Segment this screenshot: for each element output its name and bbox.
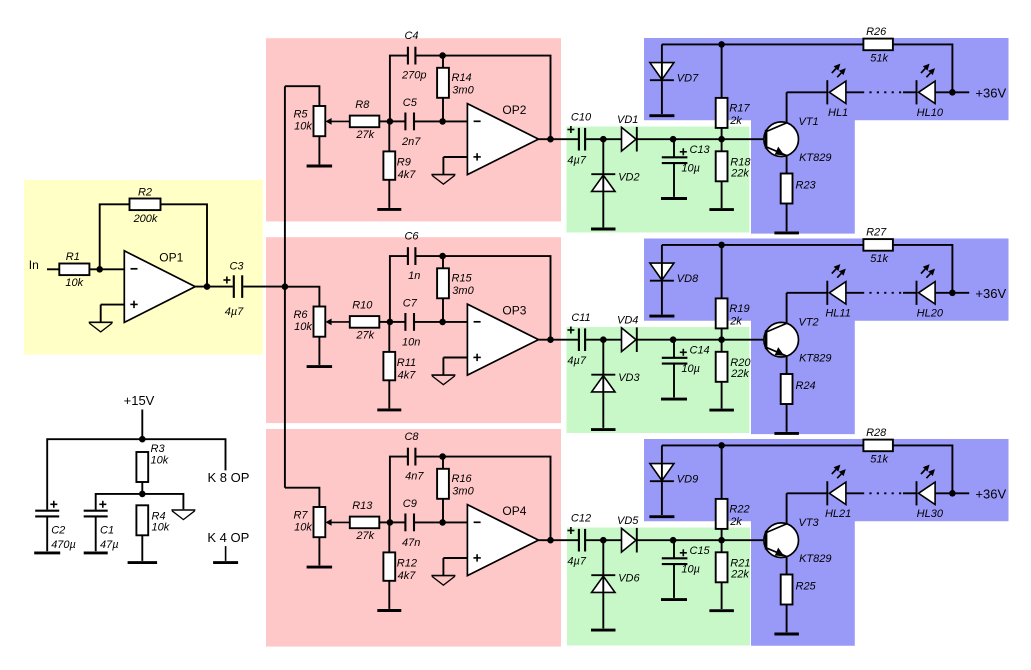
wire to filter node [379,321,390,323]
potentiometer R5 10k [293,106,349,136]
wire [673,565,675,598]
node feedback top [439,253,446,260]
svg-text:4k7: 4k7 [398,169,417,181]
resistor R24 [781,374,816,404]
wire [673,164,675,197]
wire [442,256,444,268]
svg-text:OP4: OP4 [502,504,526,518]
wire [442,157,444,174]
capacitor C11 4µ7 [579,328,585,351]
resistor R28 51k [863,427,893,465]
band-pass filter highlight 1 (pink) [266,38,561,221]
resistor R25 [781,575,817,605]
wire [442,98,444,122]
wire emitter [786,155,788,173]
wire [602,191,604,227]
svg-text:R7: R7 [293,510,308,522]
wire to C1 [96,494,143,510]
resistor R4 10k [136,505,169,535]
wire collector [786,293,788,324]
svg-text:10µ: 10µ [681,163,700,175]
wire feedback up to R2 [100,204,130,269]
wire to transistor base [722,539,767,541]
svg-text:47n: 47n [402,537,420,549]
svg-text:27k: 27k [355,530,374,542]
resistor R16 3m0 [437,469,474,499]
diode VD6 [591,572,640,592]
wire rail to C2 [47,439,142,510]
wire to grounded resistor [388,121,390,151]
svg-text:47µ: 47µ [100,539,119,551]
ground [709,208,734,211]
node detector output [670,136,677,143]
detector highlight 1 (green) [567,127,750,233]
wire to op-amp [443,521,468,523]
wire potentiometer to ground [318,136,320,164]
svg-text:C8: C8 [404,431,419,443]
node filter input [387,118,394,125]
wire [586,539,621,541]
resistor R27 51k [863,227,893,265]
resistor R9 4k7 [383,151,416,180]
op-amp OP3 [467,304,538,375]
label C8 [404,431,424,483]
wire to shunt diode [602,540,604,575]
wire collector to LED [787,292,828,294]
resistor R10 27k [350,299,380,341]
svg-text:C1: C1 [100,524,114,536]
wire [637,339,722,341]
svg-text:C14: C14 [690,344,710,356]
wire to grounded resistor [388,322,390,352]
resistor R20 22k [716,352,752,382]
svg-text:R15: R15 [452,273,473,285]
svg-text:C11: C11 [571,312,590,324]
svg-text:C15: C15 [690,545,711,557]
svg-text:R17: R17 [729,103,750,115]
capacitor C15 10µ [662,558,688,564]
svg-text:HL30: HL30 [917,508,944,520]
wire up to top capacitor [390,457,407,523]
resistor R26 51k [863,26,893,64]
ground OP3 [431,375,455,385]
svg-text:R14: R14 [452,72,472,84]
wire bus branch to potentiometer [285,86,320,106]
ground [709,609,734,612]
svg-text:22k: 22k [730,569,749,581]
wire to filter capacitor [673,340,675,357]
node +36V [949,290,956,297]
output stage highlight 3 (blue) [644,439,1009,646]
node op-amp inverting input [439,519,446,526]
node OP1 output [204,283,211,290]
output stage highlight 2 (blue) [644,239,1009,435]
label C7 [402,297,420,348]
ground [709,409,734,412]
capacitor C4 270p [408,47,416,65]
svg-text:10µ: 10µ [681,363,700,375]
svg-text:HL11: HL11 [825,308,850,320]
svg-text:270p: 270p [401,69,426,81]
svg-text:VD7: VD7 [677,73,699,85]
wire [390,321,405,323]
svg-text:+36V: +36V [975,487,1006,502]
wire [442,56,444,68]
svg-text:C10: C10 [571,111,592,123]
diode VD2 [591,171,639,191]
svg-text:K 4 OP: K 4 OP [207,530,249,545]
node op-amp inverting input [439,319,446,326]
resistor R19 2k [716,298,750,328]
svg-text:R10: R10 [352,299,373,311]
wire [846,292,862,294]
node +36V [949,89,956,96]
wire emitter [786,556,788,574]
ground OP2 [431,175,455,185]
wire top rail [662,43,864,45]
wire to shunt diode [602,139,604,174]
wire input to R1 [47,268,59,270]
svg-text:R23: R23 [796,180,817,192]
resistor R1 10k [59,251,89,289]
detector highlight 2 (green) [567,327,750,433]
ground OP1 [89,322,113,332]
capacitor C12 4µ7 [579,529,585,552]
wire [673,365,675,398]
svg-text:R26: R26 [866,26,887,38]
wire top capacitor to feedback node [416,456,442,458]
ground [307,365,333,368]
wire up to top capacitor [390,56,407,122]
node R1/R2 junction [96,266,103,273]
svg-text:C12: C12 [571,512,591,524]
ground [591,629,616,632]
wire [415,321,443,323]
svg-text:22k: 22k [730,168,749,180]
ground [377,408,401,411]
svg-text:OP1: OP1 [159,250,183,264]
svg-text:2k: 2k [729,516,742,528]
transistor VT2 KT829 [764,317,832,365]
wire [721,181,723,208]
resistor R21 22k [716,552,751,582]
wire [388,380,390,408]
wire to filter capacitor [673,540,675,557]
wire collector to LED [787,492,828,494]
wire [46,517,48,551]
wire [721,582,723,609]
wire rail to +36V node [893,445,953,493]
svg-text:VD6: VD6 [618,572,640,584]
svg-text:10k: 10k [152,522,170,534]
wire +15V [141,410,143,440]
svg-text:3m0: 3m0 [452,285,474,297]
wire to clamp diode [661,44,663,62]
svg-text:10k: 10k [294,522,312,534]
svg-text:R9: R9 [397,157,411,169]
wire non-inverting input [443,557,467,559]
input stage highlight (yellow) [24,180,263,355]
svg-text:10n: 10n [402,336,420,348]
svg-text:HL21: HL21 [825,508,851,520]
wire R2 to OP1 output [161,204,208,286]
transistor VT3 KT829 [764,517,832,565]
wire to clamp diode [661,245,663,263]
node op-amp inverting input [439,118,446,125]
wire [903,91,917,93]
svg-text:22k: 22k [730,368,749,380]
wire dotted LED chain [862,91,902,93]
label C14 [680,344,710,375]
capacitor C5 2n7 [405,113,414,131]
ground [774,633,799,636]
wire [388,180,390,208]
svg-text:+36V: +36V [975,286,1006,301]
svg-text:2n7: 2n7 [401,136,421,148]
wire [442,457,444,469]
wire op-amp output [539,539,579,541]
svg-text:HL10: HL10 [917,107,944,119]
svg-text:R25: R25 [796,581,817,593]
svg-text:HL20: HL20 [917,308,944,320]
wire [721,139,723,151]
node top rail [718,242,725,249]
node top rail [718,442,725,449]
wire top rail [662,444,864,446]
label C15 [680,545,711,576]
diode VD3 [591,372,640,392]
wire op-amp output [539,138,579,140]
wire [442,558,444,575]
label C6 [404,230,420,282]
svg-text:R21: R21 [730,557,750,569]
svg-text:51k: 51k [870,453,888,465]
node op-amp output [547,537,554,544]
svg-text:VT3: VT3 [799,517,820,529]
node base drive [718,136,725,143]
svg-text:KT829: KT829 [799,553,831,565]
output stage highlight 1 (blue) [644,38,1009,234]
wire to +36V [935,492,969,494]
capacitor C6 1n [408,247,416,265]
svg-text:3m0: 3m0 [452,85,474,97]
wire non-inverting input [443,357,467,359]
wire dotted LED chain [862,492,902,494]
wire to clamp diode [661,445,663,463]
label C13 [680,144,711,175]
wire [602,392,604,428]
svg-text:In: In [29,258,39,272]
diode VD8 [650,263,699,285]
wire [721,382,723,409]
svg-text:C9: C9 [403,498,417,510]
diode VD9 [650,464,698,486]
wire feedback to op-amp output [443,457,551,541]
wire [415,521,443,523]
capacitor C3 4µ7 [234,275,242,298]
ground [661,598,687,601]
svg-text:4µ7: 4µ7 [225,306,244,318]
wire [721,529,723,540]
svg-text:VD8: VD8 [677,273,699,285]
node feedback top [439,453,446,460]
wire [442,358,444,375]
wire emitter [786,356,788,374]
wire rail to R-top [721,44,723,98]
node base drive [718,336,725,343]
resistor R18 22k [716,151,752,181]
wire rail to +36V node [893,245,953,293]
node divider mid [139,491,146,498]
capacitor C1 47µ [84,511,108,517]
svg-text:KT829: KT829 [799,152,831,164]
svg-text:C3: C3 [229,261,244,273]
svg-text:R1: R1 [66,251,80,263]
svg-text:R8: R8 [355,99,370,111]
wire to +36V [935,91,969,93]
resistor R15 3m0 [437,268,474,298]
node detector output [670,537,677,544]
ground [649,315,674,318]
svg-text:R16: R16 [452,473,473,485]
svg-text:R19: R19 [729,303,749,315]
wire [390,521,405,523]
capacitor C10 4µ7 [579,128,585,151]
wire [602,592,604,628]
wire [388,581,390,609]
potentiometer R6 10k [293,307,349,337]
svg-text:R27: R27 [866,227,887,239]
wire rail to K 8 OP [142,439,225,470]
wire [661,81,663,114]
capacitor C2 470µ [35,511,59,517]
wire rail to R-top [721,445,723,499]
node op-amp output [547,136,554,143]
node detector input [600,336,607,343]
wire [415,120,443,122]
label C12 [567,512,591,567]
svg-text:27k: 27k [355,129,374,141]
wire [846,492,862,494]
wire potentiometer to ground [318,537,320,565]
svg-text:4k7: 4k7 [398,570,417,582]
wire to shunt diode [602,340,604,375]
svg-text:27k: 27k [355,330,374,342]
svg-text:VD2: VD2 [618,171,639,183]
label C10 [567,111,592,166]
svg-text:VD3: VD3 [618,372,640,384]
svg-text:VT2: VT2 [799,317,819,329]
node top rail [718,41,725,48]
ground [377,208,401,211]
wire rail to +36V node [893,44,953,92]
resistor R23 [781,174,817,204]
label C1 [99,501,118,551]
wire dotted LED chain [862,292,902,294]
svg-text:R5: R5 [293,109,308,121]
node detector input [600,136,607,143]
svg-text:3m0: 3m0 [452,486,474,498]
node bus junction [282,283,289,290]
svg-text:C4: C4 [404,30,418,42]
wire [721,128,723,139]
terminal K 4 OP [225,546,227,561]
svg-text:200k: 200k [133,213,158,225]
ground OP4 [431,576,455,586]
label C2 [50,501,76,551]
diode VD1 [617,114,638,152]
wire C3 to filter bus [243,286,285,288]
wire collector [786,92,788,123]
svg-text:R20: R20 [730,357,751,369]
wire [390,120,405,122]
resistor R17 2k [716,98,751,128]
wire OP1 non-inverting input [101,304,125,306]
wire to transistor base [722,138,767,140]
svg-text:4µ7: 4µ7 [567,556,586,568]
diode VD4 [617,314,638,352]
svg-text:OP3: OP3 [502,304,526,318]
node base drive [718,537,725,544]
wire to +36V [935,292,969,294]
svg-text:2k: 2k [729,316,742,328]
wire [903,292,917,294]
label C3 [223,261,244,319]
svg-text:C7: C7 [403,297,418,309]
wire [637,138,722,140]
capacitor C13 10µ [662,157,688,163]
node +36V [949,490,956,497]
wire feedback to op-amp output [443,256,551,340]
ground [649,515,674,518]
ground [377,609,401,612]
diode VD7 [650,63,699,85]
label C9 [402,498,420,549]
svg-text:470µ: 470µ [51,539,76,551]
svg-text:2k: 2k [729,115,742,127]
LED HL11 [825,264,850,320]
ground [661,398,687,401]
wire collector to LED [787,91,828,93]
wire up to top capacitor [390,256,407,322]
svg-text:VD5: VD5 [617,515,639,527]
wire [637,539,722,541]
resistor R11 4k7 [383,352,416,381]
wire [141,535,143,561]
wire [586,138,621,140]
wire [442,499,444,523]
wire top capacitor to feedback node [416,255,442,257]
wire OP1 output to C3 [195,286,233,288]
wire op-amp output [539,339,579,341]
svg-text:1n: 1n [408,270,420,282]
node feedback top [439,52,446,59]
svg-text:R13: R13 [352,500,373,512]
band-pass filter highlight 2 (pink) [266,237,561,423]
wire [721,340,723,352]
ground divider [171,510,195,520]
svg-text:R18: R18 [730,156,751,168]
capacitor C8 4n7 [408,448,416,466]
svg-text:C5: C5 [403,97,418,109]
band-pass filter highlight 3 (pink) [266,429,561,647]
wire to filter capacitor [673,139,675,156]
svg-text:10k: 10k [65,277,83,289]
wire potentiometer to ground [318,337,320,365]
svg-text:KT829: KT829 [799,353,831,365]
wire [786,404,788,432]
label C4 [401,30,426,82]
